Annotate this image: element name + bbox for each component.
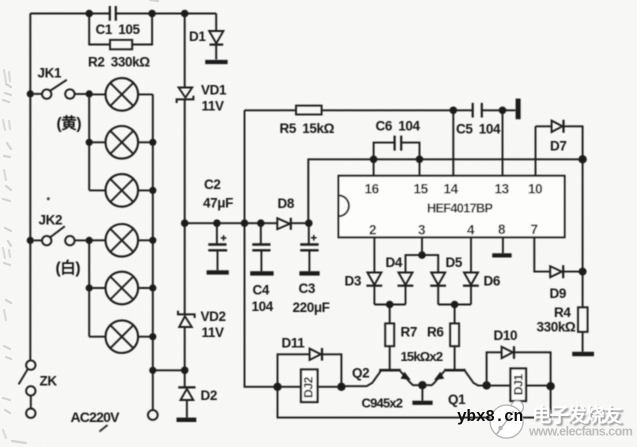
pin 8 lead (502, 237, 504, 253)
wire right column (582, 159, 584, 351)
diode D1 (205, 14, 227, 65)
capacitor C1 (110, 6, 116, 21)
node lamp4 left (86, 237, 93, 244)
node emitters junction (418, 381, 426, 389)
zener VD2 (178, 311, 195, 327)
node right bus lamp6 (149, 333, 156, 340)
node on left bus at JK2 (27, 237, 34, 244)
node rail pin13 (499, 107, 507, 115)
zener VD1 (177, 88, 194, 104)
pin 3 lead (421, 237, 423, 255)
node lamp1 left (86, 90, 93, 97)
node main vertical branch (181, 367, 189, 375)
wire branch to main vertical (153, 369, 185, 371)
terminal AC circle (148, 410, 158, 420)
node right bus branch (149, 367, 156, 374)
wire D3 D4 join (374, 304, 405, 306)
node DJ1 right (546, 382, 554, 390)
diode D4 (398, 273, 414, 305)
svg-text:ZK: ZK (40, 374, 58, 389)
wire D5 D6 join (438, 304, 471, 306)
svg-text:D11: D11 (282, 336, 306, 351)
diode D7 (536, 120, 583, 160)
lamp L3 (89, 174, 153, 207)
diode D8 (277, 218, 290, 229)
capacitor C6 loop (374, 136, 420, 160)
svg-text:DJ2: DJ2 (302, 376, 316, 398)
svg-text:JK2: JK2 (39, 213, 63, 228)
svg-text:47μF: 47μF (203, 196, 233, 211)
wire top rail (30, 13, 216, 15)
resistor R7 (385, 305, 394, 370)
svg-text:D3: D3 (345, 274, 362, 289)
wire R5 branch vertical (244, 110, 246, 223)
node rail right corner (578, 155, 586, 163)
svg-text:11V: 11V (202, 325, 224, 340)
svg-text:10: 10 (528, 182, 542, 197)
wire pin10 riser (535, 126, 537, 176)
svg-text:8: 8 (498, 222, 506, 237)
svg-text:JK1: JK1 (38, 66, 62, 81)
pin 2 lead (373, 237, 375, 272)
resistor R5 (296, 106, 322, 115)
svg-text:DJ1: DJ1 (512, 374, 526, 396)
ground R4 (572, 352, 594, 356)
svg-text:VD2: VD2 (201, 309, 226, 324)
svg-text:330kΩ: 330kΩ (537, 320, 576, 335)
capacitor C4 (250, 223, 273, 275)
svg-text:C3: C3 (299, 281, 316, 296)
wire main vertical upper (184, 14, 186, 88)
svg-text:7: 7 (531, 222, 538, 237)
svg-text:D9: D9 (550, 286, 566, 301)
svg-text:Q1: Q1 (448, 392, 466, 407)
svg-text:D8: D8 (278, 196, 295, 211)
wire relay DJ2 run (278, 386, 342, 388)
svg-text:C4: C4 (253, 283, 270, 298)
node lamp2 left (86, 139, 93, 146)
svg-text:11V: 11V (202, 99, 224, 114)
diode D10 loop (487, 346, 551, 386)
relay coil DJ2 (301, 370, 318, 403)
node right bus lamp3 (149, 187, 156, 194)
diode D9 (550, 265, 582, 278)
wire main vertical lower (184, 327, 186, 387)
wire bottom return (278, 386, 551, 417)
svg-text:14: 14 (444, 182, 459, 197)
pin 7 lead (534, 237, 550, 271)
svg-text:15: 15 (414, 182, 429, 197)
pin 13 stub (502, 110, 504, 176)
svg-text:C2: C2 (204, 177, 220, 192)
lamp L6 (89, 320, 153, 353)
ground emitters (412, 401, 432, 405)
svg-text:104: 104 (252, 299, 274, 314)
resistor R2 loop wire (89, 14, 152, 45)
capacitor C2 electrolytic (207, 223, 229, 274)
wire lamp left bus yellow group (88, 94, 90, 190)
node R7 top (386, 301, 394, 309)
lamp L4 (89, 224, 153, 257)
switch ZK (26, 360, 35, 369)
diode D2 (177, 387, 197, 422)
node lamp5 left (86, 284, 93, 291)
svg-text:D7: D7 (550, 139, 566, 154)
switch JK2 (34, 239, 42, 241)
wire Q1 collector to relay DJ1 (487, 385, 551, 387)
svg-text:VD1: VD1 (201, 83, 227, 98)
svg-text:R4: R4 (554, 305, 571, 320)
node main vertical at bus (181, 219, 189, 227)
svg-text:C1 105: C1 105 (96, 22, 141, 37)
svg-text:R6: R6 (427, 325, 444, 340)
svg-text:D4: D4 (386, 255, 403, 270)
watermark mouse logo (490, 401, 523, 438)
lamp L1 (89, 78, 153, 111)
transistor Q2 (341, 370, 422, 386)
node bus R5 branch (241, 219, 249, 227)
svg-text:15kΩx2: 15kΩx2 (401, 349, 443, 364)
node relay bus left (273, 383, 281, 391)
wire lamp left bus white group (88, 240, 90, 336)
node on left bus at JK1 (27, 90, 34, 97)
svg-text:(白): (白) (56, 258, 81, 277)
wire VDD rail (308, 159, 582, 223)
node bus C4 (257, 219, 265, 227)
diode D5 (430, 273, 446, 305)
svg-text:Q2: Q2 (352, 366, 369, 381)
wire pin3 arms to D4 D5 (406, 255, 439, 272)
svg-text:电子发烧友: 电子发烧友 (532, 404, 623, 427)
node R6 top (451, 301, 459, 309)
scan smudges left margin (3, 0, 158, 443)
node bus C2 (213, 219, 221, 227)
svg-text:16: 16 (365, 182, 380, 197)
wire lamp right bus (152, 94, 154, 410)
capacitor C3 electrolytic (299, 223, 319, 275)
lamp L2 (89, 126, 153, 159)
node D9 junction (579, 268, 587, 276)
svg-text:13: 13 (495, 182, 510, 197)
svg-text:HEF4017BP: HEF4017BP (427, 202, 492, 216)
node rail pin16 (370, 156, 378, 164)
node right bus lamp4 (149, 237, 156, 244)
wire left AC bus vertical (29, 14, 31, 361)
node relay bus right (337, 383, 345, 391)
svg-text:D6: D6 (484, 274, 501, 289)
transistor Q1 (422, 370, 486, 385)
diode D3 (366, 273, 382, 305)
node rail pin14 (450, 107, 458, 115)
svg-text:AC220V: AC220V (71, 409, 121, 425)
svg-text:D10: D10 (494, 328, 518, 343)
svg-text:R7: R7 (401, 325, 417, 340)
node pin3 split (418, 251, 426, 259)
resistor R6 (450, 305, 459, 370)
op-amp U1 HEF4017BP body (339, 176, 565, 238)
node rail pin15 (416, 156, 424, 164)
pin 15 stub (419, 159, 421, 176)
wire R5 rail (245, 109, 516, 111)
svg-text:D1: D1 (189, 29, 206, 44)
svg-text:220μF: 220μF (293, 300, 330, 315)
stray ink dot (47, 197, 50, 200)
U1 notch (339, 195, 349, 216)
pin 14 stub (452, 110, 454, 176)
node DJ1 left (482, 381, 490, 389)
node right bus lamp2 (149, 139, 156, 146)
wire main vertical mid (184, 100, 186, 314)
diode D6 (463, 273, 479, 305)
node right bus lamp5 (149, 284, 156, 291)
svg-text:R5 15kΩ: R5 15kΩ (280, 121, 335, 136)
ground pin 8 (492, 253, 511, 257)
resistor R2 (110, 40, 132, 49)
node top rail C1 left (85, 10, 93, 18)
touch plate electrode (516, 99, 521, 120)
lamp L5 (89, 272, 153, 305)
switch JK1 (34, 93, 42, 95)
svg-text:ybx8.cn: ybx8.cn (457, 408, 523, 426)
stray mark under AC220V (100, 425, 108, 432)
pin 16 stub (373, 159, 375, 176)
svg-text:C945x2: C945x2 (362, 396, 403, 411)
svg-text:3: 3 (418, 223, 426, 238)
svg-text:2: 2 (369, 223, 376, 238)
wire supply bus (185, 222, 309, 224)
pin 4 lead (470, 237, 472, 272)
node top rail C1 right (148, 10, 156, 18)
diode D11 loop (278, 348, 342, 387)
svg-text:4: 4 (467, 223, 475, 238)
svg-text:D5: D5 (446, 255, 463, 270)
node top rail main vertical (181, 10, 189, 18)
svg-text:www.elecfans.com: www.elecfans.com (528, 425, 633, 439)
svg-text:C6 104: C6 104 (376, 119, 421, 134)
wire emitter to ground (421, 385, 423, 400)
svg-text:(黄): (黄) (57, 114, 82, 133)
relay coil DJ1 (511, 369, 527, 402)
svg-text:C5 104: C5 104 (456, 122, 501, 137)
wire R5 branch to relay bus (245, 223, 278, 387)
svg-text:D2: D2 (201, 388, 217, 403)
svg-text:R2 330kΩ: R2 330kΩ (88, 55, 150, 70)
capacitor C5 (473, 103, 482, 118)
node bus C3 (305, 219, 313, 227)
resistor R4 (578, 307, 588, 332)
